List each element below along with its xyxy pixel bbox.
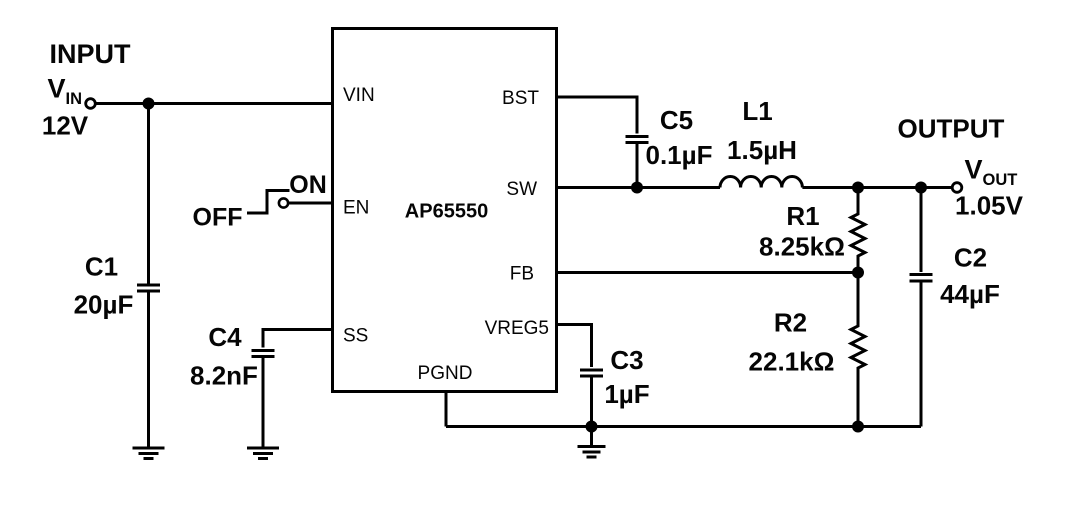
wire ground rail xyxy=(446,425,921,428)
svg-text:EN: EN xyxy=(343,198,369,219)
svg-text:8.2nF: 8.2nF xyxy=(190,361,258,391)
node junction FB divider xyxy=(852,267,864,279)
wire FB pin to divider xyxy=(557,271,859,274)
resistor R1 xyxy=(851,188,865,273)
node junction R2 bottom xyxy=(852,421,864,433)
wire PGND pin down xyxy=(445,392,448,427)
node junction C5 on SW net xyxy=(631,182,643,194)
svg-text:VIN: VIN xyxy=(48,74,83,109)
svg-text:ON: ON xyxy=(289,171,327,199)
capacitor C2 plates xyxy=(910,275,933,282)
capacitor C2 lower wire xyxy=(920,283,923,427)
capacitor C5 plates xyxy=(626,137,649,143)
wire VREG5 pin to C3 xyxy=(557,325,592,368)
IC U1 AP65550 body xyxy=(333,29,557,392)
svg-text:VIN: VIN xyxy=(343,85,375,106)
wire VIN terminal to VIN pin xyxy=(96,102,333,105)
svg-text:OFF: OFF xyxy=(193,204,243,232)
ground for C4 xyxy=(247,448,279,459)
capacitor C3 lower wire xyxy=(590,378,593,427)
svg-text:C3: C3 xyxy=(610,345,643,375)
capacitor C3 plates xyxy=(580,370,603,376)
svg-text:R2: R2 xyxy=(774,308,807,338)
svg-text:AP65550: AP65550 xyxy=(405,201,488,223)
capacitor C2 upper wire xyxy=(920,188,923,273)
svg-text:FB: FB xyxy=(510,264,534,285)
svg-text:C5: C5 xyxy=(660,105,693,135)
node junction C2 top xyxy=(915,182,927,194)
ground for rail at C3 xyxy=(578,427,606,458)
svg-text:PGND: PGND xyxy=(418,363,473,384)
svg-text:C1: C1 xyxy=(85,252,118,282)
svg-text:22.1kΩ: 22.1kΩ xyxy=(749,347,835,377)
svg-text:1µF: 1µF xyxy=(604,379,649,409)
svg-text:VREG5: VREG5 xyxy=(485,318,549,339)
svg-text:8.25kΩ: 8.25kΩ xyxy=(759,232,845,262)
output terminal VOUT (open circle) xyxy=(952,183,962,193)
capacitor C4 lower wire xyxy=(262,358,265,448)
wire SS pin to C4 xyxy=(263,330,333,348)
capacitor C1 plates xyxy=(137,285,160,291)
svg-text:SS: SS xyxy=(343,326,368,347)
switch SW1 OFF throw xyxy=(247,191,290,215)
svg-text:VOUT: VOUT xyxy=(965,155,1018,190)
node junction R1 top xyxy=(852,182,864,194)
wire inductor to output terminal xyxy=(802,186,951,189)
svg-text:SW: SW xyxy=(506,179,537,200)
svg-text:44µF: 44µF xyxy=(940,279,1000,309)
svg-text:0.1µF: 0.1µF xyxy=(645,140,712,170)
capacitor C1 wires xyxy=(147,104,150,449)
input terminal VIN (open circle) xyxy=(86,99,96,109)
svg-text:12V: 12V xyxy=(42,111,89,141)
resistor R2 xyxy=(851,273,865,427)
svg-text:OUTPUT: OUTPUT xyxy=(898,114,1005,144)
capacitor C4 plates xyxy=(252,351,275,357)
svg-text:L1: L1 xyxy=(742,96,772,126)
wire BST pin to C5 xyxy=(557,97,638,134)
svg-text:C2: C2 xyxy=(954,243,987,273)
node junction C3 ground xyxy=(586,421,598,433)
svg-text:INPUT: INPUT xyxy=(50,39,132,69)
svg-text:BST: BST xyxy=(502,88,539,109)
wire EN pin xyxy=(289,202,333,205)
svg-text:R1: R1 xyxy=(786,201,819,231)
ground for C1 xyxy=(133,448,165,459)
svg-text:1.05V: 1.05V xyxy=(955,191,1024,221)
svg-text:C4: C4 xyxy=(208,322,242,352)
inductor L1 xyxy=(720,177,802,188)
capacitor C5 lower wire xyxy=(636,144,639,188)
wire SW pin to inductor xyxy=(557,186,721,189)
node junction at C1 tap xyxy=(143,98,155,110)
svg-text:20µF: 20µF xyxy=(74,290,134,320)
svg-text:1.5µH: 1.5µH xyxy=(727,135,797,165)
switch contact circle xyxy=(279,198,288,207)
